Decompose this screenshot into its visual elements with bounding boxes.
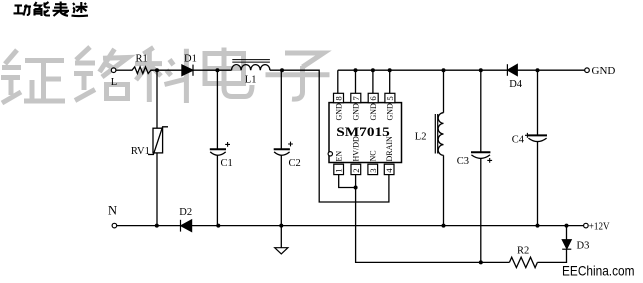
svg-text:L1: L1 — [245, 75, 257, 86]
svg-text:R1: R1 — [136, 53, 148, 64]
svg-text:R2: R2 — [517, 245, 529, 256]
svg-text:RV1: RV1 — [131, 146, 150, 157]
svg-text:GND: GND — [386, 103, 395, 121]
svg-text:DRAIN: DRAIN — [385, 136, 394, 162]
svg-text:C3: C3 — [457, 156, 469, 167]
svg-text:SM7015: SM7015 — [336, 124, 390, 139]
svg-text:L2: L2 — [415, 131, 427, 142]
svg-text:GND: GND — [592, 65, 616, 77]
svg-text:L: L — [111, 77, 117, 88]
svg-text:EEChina.com: EEChina.com — [562, 263, 635, 278]
svg-text:C1: C1 — [221, 158, 233, 169]
svg-text:7: 7 — [351, 96, 361, 101]
svg-text:NC: NC — [369, 150, 378, 161]
svg-text:HV/DD: HV/DD — [352, 136, 361, 162]
svg-text:EN: EN — [335, 151, 344, 162]
svg-text:D2: D2 — [179, 207, 192, 218]
svg-text:C2: C2 — [289, 158, 301, 169]
svg-text:D4: D4 — [509, 79, 523, 90]
svg-text:8: 8 — [334, 96, 344, 101]
svg-text:GND: GND — [369, 103, 378, 121]
svg-text:GND: GND — [352, 103, 361, 121]
svg-text:6: 6 — [368, 96, 378, 101]
svg-text:C4: C4 — [512, 135, 525, 146]
svg-text:1: 1 — [334, 168, 344, 172]
svg-text:GND: GND — [334, 103, 343, 121]
svg-text:2: 2 — [351, 168, 361, 172]
svg-text:4: 4 — [384, 168, 394, 173]
svg-text:+12V: +12V — [589, 222, 610, 233]
svg-text:N: N — [108, 203, 117, 217]
svg-text:D1: D1 — [184, 53, 197, 64]
svg-text:3: 3 — [368, 168, 378, 173]
svg-text:D3: D3 — [577, 241, 590, 252]
svg-text:5: 5 — [385, 96, 395, 101]
